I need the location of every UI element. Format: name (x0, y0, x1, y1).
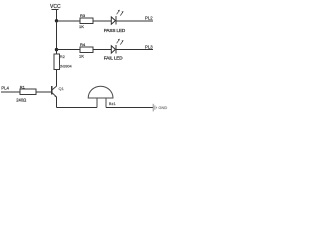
svg-text:240Ω: 240Ω (16, 97, 26, 102)
svg-text:Bz1: Bz1 (109, 101, 117, 106)
svg-text:PL2: PL2 (145, 16, 153, 21)
node junction rail row2 (55, 48, 58, 51)
wire row2 from junction to R4 (57, 49, 81, 51)
svg-text:Q1: Q1 (59, 86, 65, 91)
power VCC (50, 4, 61, 21)
node junction at VCC rail row1 (55, 19, 58, 22)
svg-text:R1: R1 (20, 85, 26, 90)
svg-text:1K: 1K (79, 24, 84, 29)
svg-text:PL4: PL4 (1, 86, 9, 91)
wire emitter to buzzer left pin (57, 107, 97, 109)
wire R4 to LED D2 (93, 49, 111, 51)
resistor R1 (16, 85, 36, 103)
svg-text:PASS LED: PASS LED (104, 28, 126, 33)
ground (153, 104, 167, 112)
wire LED D1 to terminal PL2 (116, 20, 153, 22)
svg-text:1K: 1K (79, 53, 84, 58)
wire rail row2 to R2 (56, 50, 58, 54)
wire PL4 to R1 (1, 91, 20, 93)
wire LED D2 to terminal PL3 (116, 49, 153, 51)
resistor R4 (79, 42, 93, 58)
wire buzzer right pin to ground (106, 107, 153, 109)
resistor R3 (79, 13, 93, 29)
wire R3 to LED D1 (93, 20, 111, 22)
svg-text:R4: R4 (80, 42, 86, 47)
svg-text:R2: R2 (60, 54, 66, 59)
resistor R2 (54, 54, 72, 70)
buzzer BZ1 (88, 86, 116, 107)
LED D1 PASS (104, 10, 126, 33)
wire VCC rail row1 to row2 (56, 21, 58, 50)
wire row1 from junction to R3 (57, 20, 81, 22)
svg-text:FAIL LED: FAIL LED (104, 56, 123, 61)
svg-text:GND: GND (158, 105, 167, 110)
svg-text:2N3904: 2N3904 (59, 65, 72, 69)
wire base of Q1 to R1 (36, 91, 51, 93)
svg-text:R3: R3 (80, 13, 86, 18)
LED D2 FAIL (104, 39, 124, 61)
svg-text:PL3: PL3 (145, 44, 153, 49)
transistor Q1 (52, 86, 65, 98)
wire Q1 emitter down (56, 97, 58, 108)
wire R2 to Q1 collector (56, 70, 58, 87)
